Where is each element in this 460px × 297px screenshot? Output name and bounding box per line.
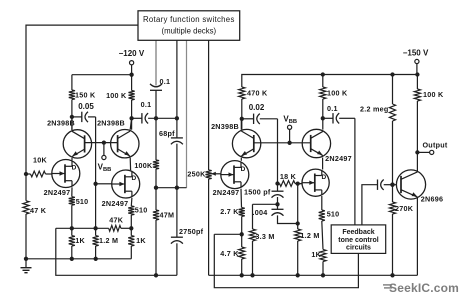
svg-text:18 K: 18 K bbox=[280, 172, 297, 181]
svg-text:1.2 M: 1.2 M bbox=[300, 231, 319, 240]
svg-text:470 K: 470 K bbox=[247, 89, 268, 98]
svg-text:.004: .004 bbox=[253, 208, 268, 217]
svg-text:510: 510 bbox=[135, 205, 148, 214]
svg-text:2N2497: 2N2497 bbox=[213, 188, 240, 197]
svg-text:−120 V: −120 V bbox=[119, 49, 145, 58]
svg-text:circuits: circuits bbox=[346, 244, 371, 251]
svg-text:510: 510 bbox=[327, 210, 340, 219]
svg-text:Output: Output bbox=[422, 140, 447, 149]
svg-text:1K: 1K bbox=[311, 250, 321, 259]
svg-text:4.7 K: 4.7 K bbox=[220, 249, 239, 258]
svg-text:0.1: 0.1 bbox=[141, 100, 152, 109]
svg-text:47K: 47K bbox=[109, 215, 123, 224]
svg-text:250K: 250K bbox=[187, 169, 206, 178]
svg-text:100 K: 100 K bbox=[106, 91, 127, 100]
svg-text:SeekIC.com: SeekIC.com bbox=[389, 281, 459, 295]
svg-text:2750pf: 2750pf bbox=[179, 227, 204, 236]
svg-text:2N2497: 2N2497 bbox=[44, 188, 71, 197]
svg-text:100K: 100K bbox=[134, 161, 153, 170]
svg-text:3.3 M: 3.3 M bbox=[255, 232, 274, 241]
svg-text:100 K: 100 K bbox=[423, 90, 444, 99]
svg-text:2N398B: 2N398B bbox=[211, 122, 239, 131]
svg-text:(multiple decks): (multiple decks) bbox=[162, 27, 217, 36]
svg-text:10K: 10K bbox=[33, 156, 47, 165]
svg-text:D: D bbox=[321, 174, 326, 181]
svg-text:2.7 K: 2.7 K bbox=[220, 207, 239, 216]
svg-text:D: D bbox=[241, 166, 246, 173]
svg-text:0.05: 0.05 bbox=[78, 102, 94, 111]
svg-text:0.02: 0.02 bbox=[249, 103, 265, 112]
svg-text:D: D bbox=[132, 175, 137, 182]
svg-text:47 K: 47 K bbox=[30, 206, 47, 215]
svg-text:2N696: 2N696 bbox=[421, 194, 443, 203]
svg-text:2.2 meg: 2.2 meg bbox=[360, 104, 389, 113]
svg-text:1K: 1K bbox=[136, 236, 146, 245]
svg-text:100 K: 100 K bbox=[327, 88, 348, 97]
svg-text:0.1: 0.1 bbox=[327, 104, 338, 113]
svg-text:1500 pf: 1500 pf bbox=[244, 187, 271, 196]
svg-text:D: D bbox=[72, 165, 77, 172]
svg-text:2N2497: 2N2497 bbox=[102, 199, 129, 208]
svg-text:47M: 47M bbox=[160, 210, 175, 219]
svg-text:510: 510 bbox=[76, 197, 89, 206]
svg-text:−150 V: −150 V bbox=[403, 48, 429, 57]
svg-text:270K: 270K bbox=[395, 204, 414, 213]
svg-text:1.2 M: 1.2 M bbox=[99, 236, 118, 245]
svg-text:tone control: tone control bbox=[338, 237, 378, 244]
svg-text:2N398B: 2N398B bbox=[47, 119, 75, 128]
svg-text:Feedback: Feedback bbox=[342, 229, 374, 236]
svg-text:Rotary function switches: Rotary function switches bbox=[143, 15, 235, 24]
svg-text:2N2497: 2N2497 bbox=[325, 154, 352, 163]
svg-text:68pf: 68pf bbox=[159, 129, 175, 138]
svg-text:150 K: 150 K bbox=[75, 91, 96, 100]
svg-text:1K: 1K bbox=[75, 236, 85, 245]
svg-text:2N398B: 2N398B bbox=[97, 119, 125, 128]
svg-text:0.1: 0.1 bbox=[160, 77, 171, 86]
